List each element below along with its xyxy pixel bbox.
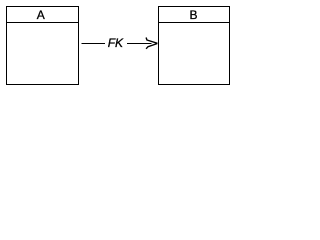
FK arrowhead (open curved chevron) <box>146 38 157 49</box>
FK arrow shaft left segment <box>81 43 104 45</box>
box B header separator <box>158 22 230 24</box>
entity box B <box>159 7 230 85</box>
box A header separator <box>6 22 79 24</box>
svg-text:FK: FK <box>108 36 124 50</box>
svg-text:B: B <box>189 8 197 22</box>
svg-text:A: A <box>37 8 45 22</box>
FK arrow shaft right segment <box>127 43 152 45</box>
entity box A <box>7 7 79 85</box>
